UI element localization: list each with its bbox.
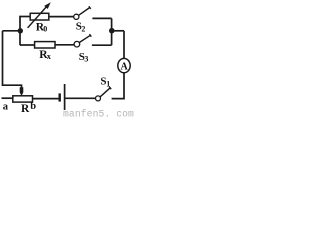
wire potentiometer to battery (33, 98, 60, 100)
wire left vertical from top corner through node A (19, 16, 21, 46)
label S2 (76, 21, 86, 34)
switch S1 (96, 87, 112, 101)
label Rx (39, 49, 51, 61)
battery long plate (64, 84, 66, 110)
svg-text:R: R (21, 103, 30, 115)
svg-text:A: A (121, 61, 129, 72)
wire node A to left rail (3, 30, 21, 32)
svg-text:1: 1 (106, 79, 110, 88)
wire Rx to S3 (55, 44, 74, 46)
wire terminal a stub (2, 97, 13, 99)
node A junction dot (18, 28, 23, 33)
label S3 (79, 51, 89, 64)
wire right vertical up to node B (111, 31, 113, 46)
svg-text:x: x (47, 52, 51, 61)
switch S2 (74, 6, 91, 19)
svg-text:2: 2 (81, 24, 85, 33)
svg-text:manfen5. com: manfen5. com (63, 109, 134, 118)
label R0 (36, 21, 47, 33)
resistor Rx (35, 42, 55, 48)
wire R0 to S2 (49, 16, 74, 18)
wire node A down to Rx branch (20, 44, 35, 46)
wire left rail down to wiper (3, 31, 22, 88)
label b (30, 101, 36, 112)
switch S3 (74, 34, 91, 47)
label R (21, 103, 30, 115)
resistor R0 (28, 2, 51, 28)
wire S3 to right vertical (92, 44, 112, 46)
battery short plate (59, 93, 61, 101)
node B junction dot (109, 28, 115, 34)
wire battery to S1 (65, 97, 96, 99)
wire ammeter down to bottom-right corner (112, 73, 124, 99)
wire node B to ammeter rail (112, 30, 124, 32)
svg-text:0: 0 (43, 25, 47, 34)
wire top-right vertical down to node B (111, 18, 113, 30)
wire S2 to top-right corner (92, 17, 111, 19)
wire down to ammeter (123, 31, 125, 59)
svg-text:b: b (30, 101, 36, 112)
watermark manfen5.com (63, 109, 134, 120)
label S1 (100, 75, 110, 88)
label a (3, 102, 9, 113)
potentiometer R box (13, 96, 33, 102)
svg-text:a: a (3, 102, 9, 113)
potentiometer wiper arrowhead (20, 87, 24, 96)
wire top-left horizontal (20, 16, 30, 18)
svg-text:3: 3 (84, 55, 88, 64)
ammeter A (118, 58, 130, 72)
